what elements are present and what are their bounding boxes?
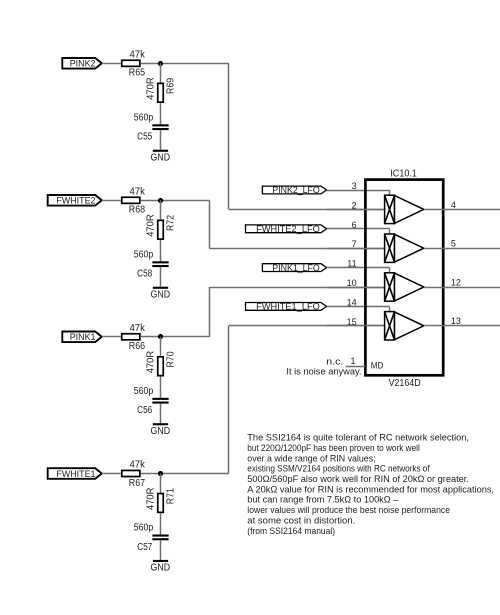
svg-text:560p: 560p: [134, 386, 154, 397]
junction node PINK2: [158, 61, 163, 66]
VCA cell 1 crossed box: [385, 195, 395, 223]
svg-text:n.c.: n.c.: [326, 357, 343, 367]
VCA cell 4 crossed box: [385, 312, 395, 340]
svg-text:GND: GND: [151, 426, 171, 437]
svg-text:470R: 470R: [146, 77, 157, 99]
wire control pin 11 drop into VCA 3: [389, 268, 391, 273]
svg-text:PINK1_LFO: PINK1_LFO: [272, 263, 320, 273]
ground: [151, 287, 171, 301]
wire FWHITE1 net into IC pin: [229, 325, 385, 327]
svg-text:47k: 47k: [130, 323, 145, 334]
svg-text:but 220Ω/1200pF has been prove: but 220Ω/1200pF has been proven to work …: [247, 443, 420, 453]
svg-text:6: 6: [352, 220, 357, 230]
wire control pin 3 drop into VCA 1: [389, 190, 391, 195]
wire input pin 15 stub: [327, 325, 385, 327]
wire R72 to C58: [160, 240, 162, 262]
svg-text:500Ω/560pF also work well for: 500Ω/560pF also work well for RIN of 20k…: [247, 474, 469, 484]
net tag FWHITE1_LFO: [246, 302, 327, 312]
svg-text:R72: R72: [165, 215, 176, 231]
svg-text:IC10.1: IC10.1: [390, 169, 417, 180]
junction node FWHITE1: [158, 471, 163, 476]
svg-text:C58: C58: [137, 269, 153, 280]
resistor R70: [158, 357, 164, 376]
svg-text:47k: 47k: [130, 186, 145, 197]
svg-text:V2164D: V2164D: [389, 378, 421, 389]
capacitor C55: [152, 124, 168, 126]
wire junction to R69: [160, 63, 162, 82]
capacitor C56: [152, 398, 168, 400]
junction node FWHITE2: [158, 198, 163, 203]
wire FWHITE1 tag to R67: [102, 473, 121, 475]
svg-text:11: 11: [347, 259, 356, 269]
wire vertical FWHITE1 net to pin row: [228, 326, 230, 474]
VCA cell 2 crossed box: [385, 234, 395, 262]
svg-text:2: 2: [352, 200, 357, 210]
svg-text:47k: 47k: [130, 460, 145, 471]
svg-text:560p: 560p: [134, 112, 154, 123]
wire vertical PINK1 net to pin row: [209, 287, 211, 337]
resistor R72: [158, 220, 164, 239]
svg-text:7: 7: [352, 239, 357, 249]
capacitor C58: [152, 261, 168, 263]
wire PINK1_LFO to IC pin: [327, 267, 390, 269]
svg-text:14: 14: [347, 297, 357, 307]
resistor R65: [122, 60, 140, 66]
resistor R68: [122, 197, 140, 203]
svg-text:13: 13: [451, 316, 461, 326]
wire R68 to corner: [141, 200, 209, 202]
wire C56 to GND: [160, 404, 162, 424]
wire R69 to C55: [160, 103, 162, 125]
ground: [151, 560, 171, 574]
svg-text:R68: R68: [129, 205, 146, 216]
wire R71 to C57: [160, 513, 162, 535]
svg-text:GND: GND: [151, 152, 171, 163]
wire output pin 4: [424, 209, 500, 211]
svg-text:C55: C55: [137, 132, 153, 143]
net tag PINK1_LFO: [262, 263, 326, 273]
wire PINK2 tag to R65: [102, 63, 121, 65]
VCA cell 2 triangle: [395, 234, 424, 262]
svg-text:R70: R70: [165, 351, 176, 368]
svg-text:but can range from 7.5kΩ to 10: but can range from 7.5kΩ to 100kΩ –: [247, 495, 398, 505]
wire PINK1 net into IC pin: [209, 287, 384, 289]
svg-text:C56: C56: [137, 405, 153, 416]
svg-text:It is noise anyway.: It is noise anyway.: [286, 367, 361, 377]
wire input pin 2 stub: [327, 209, 385, 211]
svg-text:R66: R66: [129, 341, 146, 352]
svg-text:FWHITE2: FWHITE2: [56, 196, 95, 207]
svg-text:GND: GND: [151, 563, 171, 574]
svg-text:(from SSI2164 manual): (from SSI2164 manual): [247, 526, 335, 536]
note: RC network selection annotation: [247, 433, 494, 536]
wire FWHITE2_LFO to IC pin: [327, 228, 390, 230]
capacitor C57: [152, 535, 168, 537]
ground: [151, 423, 171, 437]
svg-text:at some cost in distortion.: at some cost in distortion.: [247, 515, 355, 525]
wire input pin 7 stub: [327, 248, 385, 250]
wire control pin 6 drop into VCA 2: [389, 229, 391, 234]
wire C57 to GND: [160, 540, 162, 560]
svg-text:lower values will produce the: lower values will produce the best noise…: [247, 505, 450, 515]
wire output pin 13: [424, 325, 500, 327]
svg-text:560p: 560p: [134, 523, 154, 534]
svg-text:560p: 560p: [134, 249, 154, 260]
resistor R67: [122, 470, 140, 476]
svg-text:R67: R67: [129, 478, 145, 489]
wire R70 to C56: [160, 377, 162, 399]
wire junction to R72: [160, 200, 162, 219]
svg-text:MD: MD: [371, 360, 384, 370]
wire PINK2_LFO to IC pin: [327, 190, 390, 192]
svg-text:470R: 470R: [146, 214, 157, 236]
wire R66 to corner: [141, 336, 209, 338]
wire R67 to corner: [141, 473, 229, 475]
svg-text:The SSI2164 is quite tolerant: The SSI2164 is quite tolerant of RC netw…: [247, 433, 469, 443]
svg-text:FWHITE1: FWHITE1: [56, 469, 95, 480]
net tag PINK1: [62, 332, 102, 344]
net tag PINK2_LFO: [262, 185, 326, 195]
svg-text:PINK1: PINK1: [70, 332, 96, 343]
svg-text:GND: GND: [151, 289, 171, 300]
svg-text:470R: 470R: [146, 488, 157, 510]
wire C58 to GND: [160, 267, 162, 287]
svg-text:15: 15: [347, 317, 357, 327]
svg-text:C57: C57: [137, 542, 152, 553]
svg-text:3: 3: [352, 181, 357, 191]
wire output pin 12: [424, 287, 500, 289]
VCA cell 3 triangle: [395, 273, 424, 301]
wire input pin 10 stub: [327, 287, 385, 289]
svg-text:47k: 47k: [130, 49, 145, 60]
wire vertical PINK2 net to pin row: [228, 63, 230, 209]
wire R65 to corner: [141, 63, 229, 65]
svg-text:FWHITE1_LFO: FWHITE1_LFO: [256, 302, 320, 312]
wire C55 to GND: [160, 130, 162, 150]
svg-text:A 20kΩ value for RIN is recomm: A 20kΩ value for RIN is recommended for …: [247, 484, 494, 494]
svg-text:R65: R65: [129, 68, 146, 79]
svg-text:12: 12: [451, 277, 461, 287]
wire pin 1 n.c. stub: [346, 366, 366, 368]
wire FWHITE2 net into IC pin: [209, 248, 384, 250]
ground: [151, 150, 171, 164]
wire vertical FWHITE2 net to pin row: [209, 200, 211, 248]
svg-text:existing SSM/V2164 positions w: existing SSM/V2164 positions with RC net…: [247, 464, 430, 474]
op-amp IC U IC10 box: [365, 180, 443, 376]
wire PINK1 tag to R66: [102, 336, 121, 338]
VCA cell 4 triangle: [395, 312, 424, 340]
svg-text:PINK2: PINK2: [70, 59, 96, 70]
resistor R71: [158, 494, 164, 513]
svg-text:over a wide range of RIN value: over a wide range of RIN values;: [247, 453, 375, 463]
wire control pin 14 drop into VCA 4: [389, 306, 391, 311]
wire PINK2 net into IC pin: [229, 209, 385, 211]
net tag FWHITE2_LFO: [246, 224, 327, 234]
resistor R69: [158, 83, 164, 102]
svg-text:R71: R71: [165, 488, 176, 504]
svg-text:4: 4: [451, 200, 456, 210]
svg-text:1: 1: [350, 356, 355, 366]
net tag FWHITE2: [48, 195, 102, 207]
svg-text:10: 10: [347, 278, 357, 288]
svg-text:5: 5: [451, 239, 456, 249]
wire FWHITE1_LFO to IC pin: [327, 306, 390, 308]
net tag PINK2: [62, 58, 102, 70]
wire junction to R71: [160, 474, 162, 493]
wire FWHITE2 tag to R68: [102, 200, 121, 202]
junction node PINK1: [158, 334, 163, 339]
wire junction to R70: [160, 337, 162, 356]
svg-text:PINK2_LFO: PINK2_LFO: [272, 185, 320, 195]
VCA cell 1 triangle: [395, 196, 424, 224]
wire output pin 5: [424, 248, 500, 250]
resistor R66: [122, 334, 140, 340]
svg-text:470R: 470R: [146, 351, 157, 373]
VCA cell 3 crossed box: [385, 273, 395, 301]
net tag FWHITE1: [48, 468, 102, 480]
svg-text:R69: R69: [165, 78, 176, 94]
svg-text:FWHITE2_LFO: FWHITE2_LFO: [256, 224, 320, 234]
